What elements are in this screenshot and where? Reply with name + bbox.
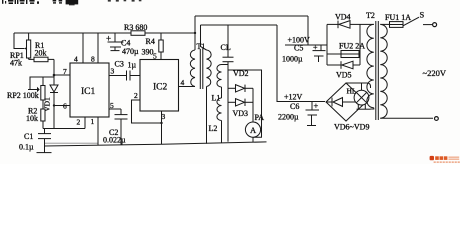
label C1 0.1u: [19, 132, 34, 152]
transformer T1 secondary winding: [201, 25, 212, 144]
svg-text:2: 2: [134, 91, 138, 100]
transformer T2 left winding: [360, 24, 374, 109]
svg-text:~220V: ~220V: [423, 68, 447, 78]
resistor R3: [131, 31, 145, 36]
capacitor C1: [38, 129, 51, 153]
transformer T1 primary winding: [190, 16, 195, 87]
svg-text:5: 5: [153, 52, 157, 61]
wire T1 primary top feed: [195, 15, 308, 17]
wire IC1 pin 6: [54, 105, 70, 107]
wire IC1 pin 2 stub: [84, 117, 86, 129]
transformer T2 right winding: [380, 24, 433, 118]
svg-text:2200µ: 2200µ: [278, 113, 299, 122]
svg-text:7: 7: [63, 67, 67, 76]
svg-text:390: 390: [142, 48, 154, 57]
svg-text:2: 2: [77, 118, 81, 127]
label C5 1000u +: [282, 43, 318, 64]
node pin7 junction dot: [53, 74, 56, 77]
ground bar under C1: [37, 152, 52, 154]
label C2 0.022u: [103, 128, 126, 145]
transformer T2 core: [376, 21, 379, 120]
label C6 2200u +: [278, 101, 319, 122]
svg-text:0.022µ: 0.022µ: [103, 136, 126, 145]
capacitor C4 electrolytic: [108, 33, 124, 51]
pin labels IC1: [63, 55, 115, 127]
wire RP2 branch: [28, 77, 54, 90]
wire meter return branch: [228, 70, 262, 137]
watermark (red, bottom right): [430, 156, 460, 163]
label R2 10k: [26, 107, 38, 124]
svg-text:L2: L2: [209, 124, 218, 133]
switch S: [403, 17, 437, 26]
wire VD rail right: [359, 24, 361, 65]
IC U1 (IC1 555): [70, 63, 109, 117]
svg-text:4: 4: [74, 55, 78, 64]
svg-text:C3: C3: [115, 60, 124, 69]
wire +12V feeder from T1 secondary top: [277, 25, 325, 102]
svg-text:VD5: VD5: [336, 71, 352, 80]
wire +100V line: [285, 44, 327, 46]
svg-text:A: A: [250, 125, 257, 135]
wire T1 secondary top feed: [201, 24, 278, 26]
capacitor CL: [223, 25, 234, 62]
wire IC2 pin 4 to T1 primary: [179, 86, 196, 88]
title text fragment (clipped at top edge): [2, 0, 141, 5]
label R1 20k: [35, 41, 47, 58]
diode VD4: [327, 21, 360, 29]
wire diode cathode rail to meter: [252, 88, 254, 122]
svg-text:VD2: VD2: [233, 69, 249, 78]
svg-text:IC2: IC2: [153, 83, 168, 93]
svg-text:R3 680: R3 680: [124, 23, 147, 32]
inductor L2 winding: [217, 98, 222, 143]
diode VD5: [327, 61, 360, 69]
fuse FU1: [390, 22, 404, 28]
wire +100V feeder from T1 primary top: [307, 16, 309, 45]
diode VD3: [228, 99, 253, 106]
wire VD rail left: [326, 24, 328, 65]
svg-text:VD3: VD3: [233, 109, 249, 118]
resistor R4: [159, 33, 163, 60]
inductor L1 winding: [217, 65, 222, 88]
svg-text:8: 8: [91, 55, 95, 64]
wire top supply bus: [14, 32, 195, 34]
diode VD2: [228, 85, 253, 92]
potentiometer RP2: [30, 77, 45, 100]
wire R1 to pin7 node rail: [53, 59, 55, 77]
fuse FU2: [327, 51, 360, 58]
wire IC1 pin 4 stub: [82, 33, 84, 63]
terminal AC bottom: [435, 117, 439, 121]
label RP1 47k: [10, 51, 24, 68]
svg-text:S: S: [420, 10, 425, 20]
svg-text:6: 6: [63, 102, 67, 111]
capacitor C5 electrolytic: [313, 45, 326, 62]
svg-text:VD6~VD9: VD6~VD9: [334, 123, 369, 132]
svg-text:20k: 20k: [35, 49, 47, 58]
transformer T1 core: [200, 49, 203, 89]
wire CL bottom node: [222, 64, 229, 66]
wire IC2 pin 3 to ground bus: [161, 111, 163, 144]
svg-text:470µ: 470µ: [122, 47, 139, 56]
pin labels IC2: [134, 52, 185, 122]
resistor R1: [29, 57, 54, 62]
svg-text:+12V: +12V: [284, 93, 303, 102]
wire bottom ground bus: [45, 142, 267, 146]
svg-text:3: 3: [162, 112, 166, 121]
lamp HL: [354, 83, 370, 109]
svg-text:T2: T2: [366, 11, 375, 20]
svg-text:1µ: 1µ: [128, 61, 137, 70]
svg-text:RP2 100k: RP2 100k: [7, 91, 39, 100]
wire bridge top to T2: [346, 83, 371, 88]
svg-text:HL: HL: [347, 87, 357, 96]
svg-text:0.1µ: 0.1µ: [19, 143, 34, 152]
svg-text:C6: C6: [290, 102, 299, 111]
svg-text:FU2 2A: FU2 2A: [339, 42, 365, 51]
node pin6 junction dot: [53, 104, 55, 106]
svg-text:4: 4: [181, 78, 185, 87]
resistor R2: [41, 100, 45, 129]
svg-text:+: +: [106, 34, 111, 44]
svg-text:+: +: [314, 101, 319, 111]
node bus to T1 rail junction: [194, 32, 196, 34]
svg-text:IC1: IC1: [81, 87, 96, 97]
node pin3 junction dot: [160, 122, 162, 124]
wire left branch to RP1 wiper: [14, 33, 25, 49]
svg-text:CL: CL: [221, 43, 231, 52]
svg-text:R4: R4: [146, 37, 155, 46]
diode VD1: [50, 77, 58, 129]
wire IC1 pin 7: [54, 74, 70, 76]
wire IC2 pin 2 loop to pin 3: [132, 100, 162, 123]
wire IC1 pin 1 to ground bus: [97, 117, 99, 145]
svg-text:1000µ: 1000µ: [282, 55, 303, 64]
svg-text:PA: PA: [255, 113, 265, 122]
svg-text:1: 1: [91, 117, 95, 126]
wire L1-L2 junction: [221, 87, 223, 98]
wire trigger node to pin 2: [43, 128, 85, 130]
IC U2 (IC2): [140, 60, 179, 112]
label C3 1u: [115, 60, 137, 70]
wire local ground trace (doubled scan line): [45, 142, 98, 144]
capacitor C6 electrolytic: [306, 102, 320, 126]
svg-text:FU1 1A: FU1 1A: [385, 13, 411, 22]
rectifier bridge VD6-VD9 diamond: [326, 83, 366, 121]
wire diode feeder rail: [227, 62, 229, 142]
meter PA ammeter: [245, 122, 260, 142]
potentiometer RP1: [25, 33, 31, 59]
svg-text:+: +: [313, 43, 318, 52]
svg-text:47k: 47k: [10, 59, 22, 68]
svg-text:10k: 10k: [26, 114, 38, 123]
svg-text:C1: C1: [24, 132, 33, 141]
label + C4 470u: [106, 34, 139, 57]
svg-text:C5: C5: [294, 44, 303, 53]
capacitor C3: [109, 71, 140, 81]
svg-text:VD4: VD4: [335, 13, 351, 22]
capacitor C2: [109, 109, 128, 145]
label R4 390: [142, 37, 155, 57]
wire IC1 pin 8 stub: [97, 33, 99, 63]
